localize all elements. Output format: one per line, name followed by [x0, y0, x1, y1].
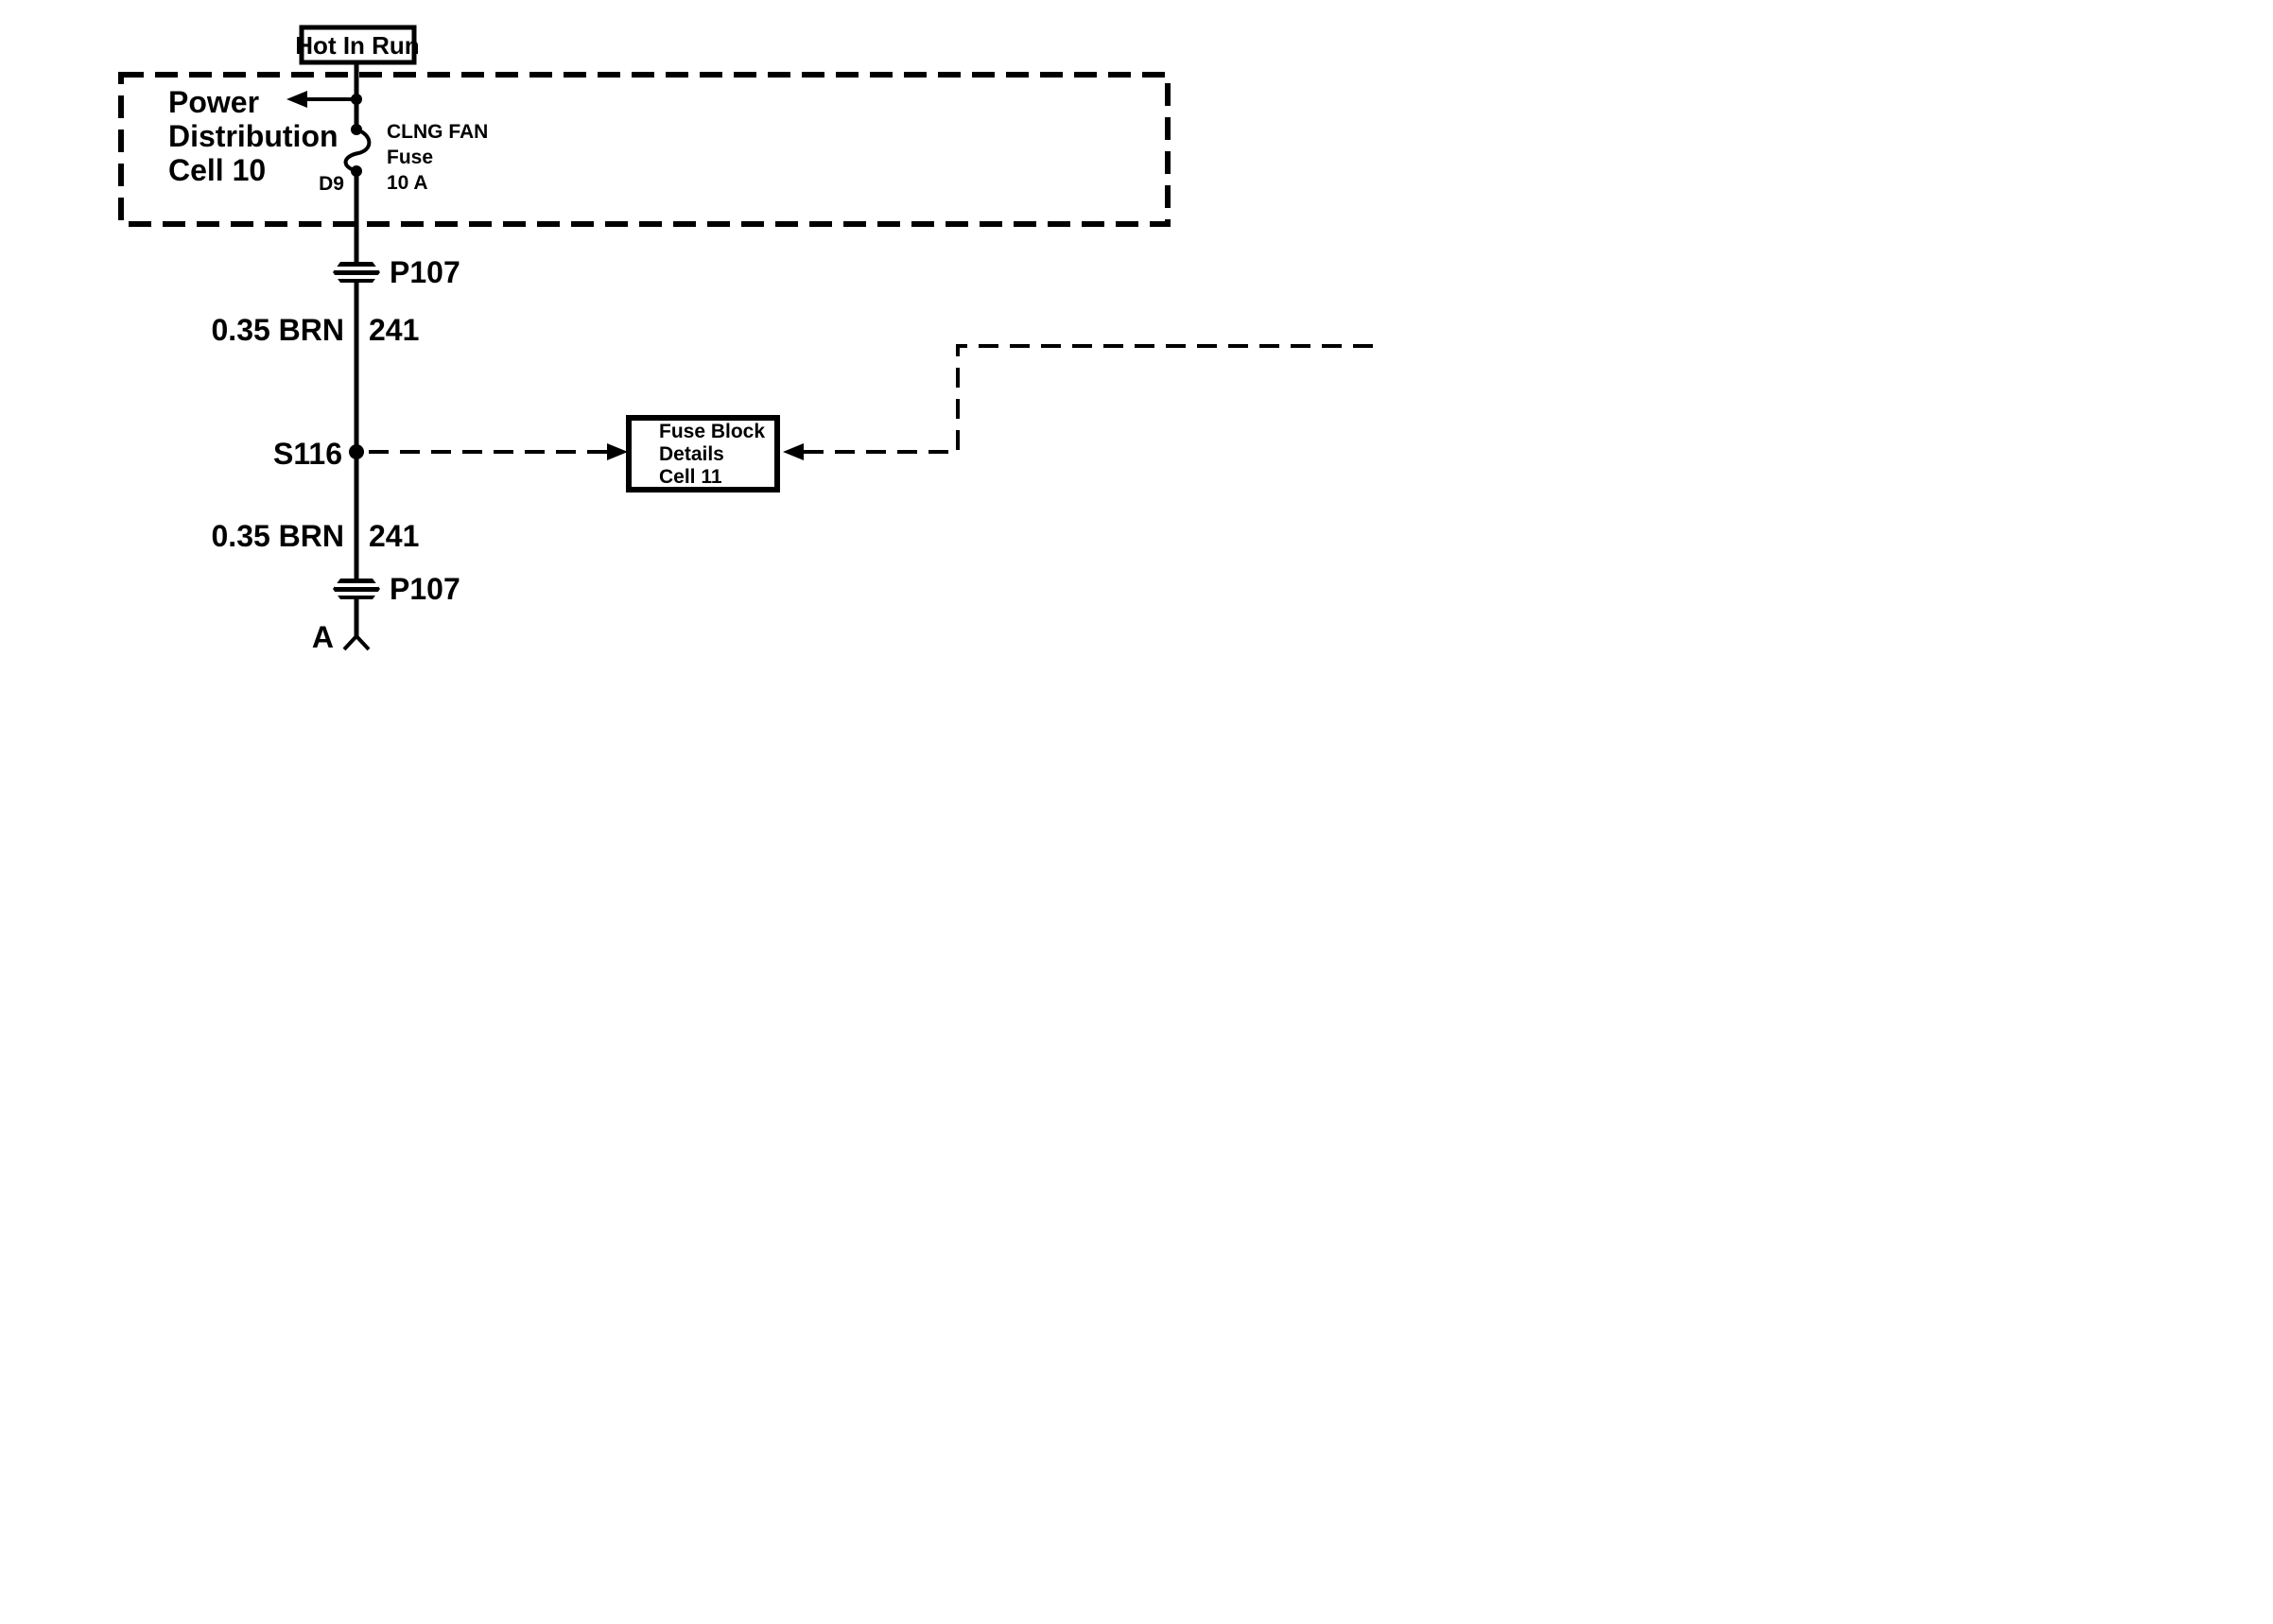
- Hot In Run flag box: [295, 27, 419, 62]
- wire label 0.35 BRN 241 (upper): [212, 313, 420, 347]
- svg-text:S116: S116: [273, 437, 342, 471]
- svg-text:Details: Details: [659, 443, 724, 465]
- svg-text:A: A: [312, 620, 334, 654]
- wire P107 to S116 to P107: [355, 283, 359, 579]
- wire P107 to connector A: [355, 599, 359, 636]
- svg-text:Cell 10: Cell 10: [168, 153, 266, 187]
- svg-text:D9: D9: [319, 173, 344, 195]
- connector P107 (lower): [333, 572, 460, 606]
- svg-text:CLNG FAN: CLNG FAN: [387, 121, 488, 143]
- svg-text:P107: P107: [390, 255, 460, 289]
- dashed reference wire from S130 to Fuse Block Details: [783, 346, 1377, 460]
- svg-text:Fuse: Fuse: [387, 147, 433, 168]
- svg-text:Fuse Block: Fuse Block: [659, 421, 765, 442]
- wire label 0.35 BRN 241 (lower): [212, 519, 420, 553]
- fuse CLNG FAN 10A: [346, 124, 370, 177]
- svg-text:P107: P107: [390, 572, 460, 606]
- svg-text:Distribution: Distribution: [168, 119, 338, 153]
- label Power Distribution Cell 10 (left): [168, 85, 338, 187]
- svg-text:Hot In Run: Hot In Run: [295, 31, 419, 60]
- svg-text:Power: Power: [168, 85, 259, 119]
- svg-text:241: 241: [369, 519, 419, 553]
- wire from Hot In Run into fuse block: [355, 62, 359, 128]
- svg-text:10 A: 10 A: [387, 172, 428, 194]
- connector P107 (top): [333, 255, 460, 289]
- IP fuse block dashed box: [121, 75, 1168, 224]
- svg-text:0.35 BRN: 0.35 BRN: [212, 519, 345, 553]
- dashed reference wire S116 to Fuse Block Details: [369, 443, 628, 460]
- arrow to power distribution (left): [286, 91, 362, 108]
- connector A of brake switch: [312, 620, 369, 654]
- splice S116: [273, 437, 364, 471]
- wire fuse to P107: [355, 171, 359, 262]
- svg-text:Cell 11: Cell 11: [659, 466, 722, 488]
- svg-text:241: 241: [369, 313, 419, 347]
- Fuse Block Details Cell 11 box: [629, 418, 777, 490]
- svg-text:0.35 BRN: 0.35 BRN: [212, 313, 345, 347]
- label CLNG FAN Fuse 10 A: [387, 121, 488, 194]
